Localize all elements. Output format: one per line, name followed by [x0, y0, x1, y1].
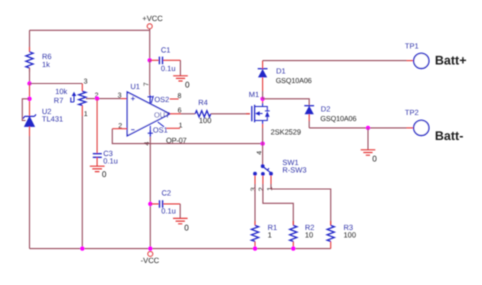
- svg-text:M1: M1: [249, 90, 259, 99]
- resistor R2: [292, 221, 294, 249]
- resistor R4: [181, 113, 195, 115]
- opamp pin4: [149, 131, 151, 137]
- node M1 drain junction: [260, 97, 264, 101]
- svg-text:OUT: OUT: [154, 110, 170, 119]
- wire gnd drop: [367, 128, 369, 150]
- switch SW1 R-SW3: [261, 164, 265, 168]
- svg-text:1k: 1k: [42, 60, 50, 69]
- wire top rail: [30, 29, 150, 31]
- node junction U2 ref: [27, 97, 31, 101]
- svg-text:4: 4: [256, 151, 263, 155]
- potentiometer R7: [81, 84, 83, 117]
- opamp label OS2: [151, 96, 153, 103]
- wire C2 to ground: [179, 204, 181, 218]
- svg-text:0: 0: [372, 155, 377, 164]
- op-amp U1: [127, 92, 170, 136]
- svg-text:8: 8: [178, 93, 182, 100]
- switch contact stubs: [255, 176, 271, 184]
- wire left column junction to U2: [29, 84, 31, 117]
- node R1 rail: [253, 246, 257, 250]
- svg-text:1: 1: [84, 111, 88, 118]
- svg-text:3: 3: [118, 93, 122, 100]
- svg-text:TP2: TP2: [405, 108, 419, 117]
- node gnd tap: [366, 126, 370, 130]
- wire U2 ref bracket: [22, 99, 29, 121]
- svg-text:Batt+: Batt+: [435, 53, 467, 67]
- svg-text:-VCC: -VCC: [141, 256, 160, 265]
- wire contact2 to R2: [263, 184, 293, 225]
- wire R6 node to pot pin3: [30, 83, 83, 85]
- svg-text:0: 0: [102, 170, 107, 179]
- U2 TL431: [23, 114, 36, 118]
- wire bottom rail: [30, 248, 331, 250]
- svg-text:3: 3: [250, 187, 257, 191]
- wire feedback pin2: [112, 128, 127, 130]
- wire left column R6 to junction: [29, 68, 31, 84]
- svg-text:0.1u: 0.1u: [161, 64, 176, 73]
- wire VCC to opamp pin7: [149, 60, 151, 95]
- svg-text:TL431: TL431: [42, 115, 63, 124]
- svg-text:100: 100: [344, 230, 357, 239]
- node junction R6/pot: [27, 81, 31, 85]
- svg-text:+VCC: +VCC: [142, 14, 163, 23]
- svg-text:GSQ10A06: GSQ10A06: [320, 114, 356, 123]
- pin 8 stub: [170, 98, 179, 100]
- wire top rail to TP1: [263, 60, 407, 62]
- svg-text:GSQ10A06: GSQ10A06: [276, 76, 312, 85]
- resistor R6: [29, 47, 31, 72]
- wire source to SW1: [262, 128, 264, 144]
- svg-text:2: 2: [259, 187, 266, 191]
- node R2 rail: [291, 246, 295, 250]
- diode D2: [304, 105, 314, 107]
- ground 0 at C2: [173, 218, 188, 223]
- capacitor C1: [150, 59, 181, 61]
- svg-text:OS2: OS2: [154, 95, 169, 104]
- node junction C1 tap: [148, 58, 152, 62]
- wire C1 to ground: [179, 60, 181, 75]
- node C3 tap: [95, 96, 99, 100]
- svg-text:C1: C1: [161, 45, 171, 54]
- -VCC power symbol: [148, 252, 153, 257]
- svg-text:TP1: TP1: [405, 41, 419, 50]
- transistor M1 2SK2529: [246, 113, 250, 115]
- svg-text:C2: C2: [162, 189, 172, 198]
- svg-text:2SK2529: 2SK2529: [271, 128, 301, 137]
- svg-text:0: 0: [185, 80, 190, 89]
- wire D2 to TP2: [309, 127, 406, 129]
- wire wiper to opamp +in: [86, 98, 121, 100]
- node M1 source junction: [260, 141, 264, 145]
- svg-text:0.1u: 0.1u: [161, 207, 176, 216]
- wire drain to D2: [263, 99, 310, 106]
- svg-text:R4: R4: [198, 98, 208, 107]
- svg-text:2: 2: [118, 123, 122, 130]
- capacitor C3: [93, 154, 102, 158]
- wire VCC column: [149, 29, 151, 61]
- pin 6 out wire: [170, 113, 181, 115]
- svg-text:OS1: OS1: [153, 125, 168, 134]
- svg-text:0.1u: 0.1u: [103, 157, 118, 166]
- wire R4 to gate: [211, 113, 250, 115]
- svg-text:1: 1: [179, 123, 183, 130]
- resistor R3: [330, 221, 332, 249]
- svg-text:0: 0: [184, 223, 189, 232]
- ground 0 at TP2 line: [361, 150, 376, 155]
- svg-text:D1: D1: [276, 66, 286, 75]
- svg-text:1: 1: [268, 230, 272, 239]
- svg-text:U1: U1: [130, 82, 140, 91]
- node C2 tap: [148, 202, 152, 206]
- wire pot pin1 to bottom rail: [81, 116, 83, 249]
- opamp label OS1: [150, 122, 164, 132]
- diode D1: [262, 77, 264, 91]
- ground 0 at C3: [90, 166, 105, 171]
- wire opamp pin4 down: [149, 137, 151, 249]
- svg-text:R7: R7: [54, 96, 64, 105]
- resistor R1: [254, 221, 256, 249]
- svg-text:Batt-: Batt-: [435, 129, 463, 143]
- svg-text:D2: D2: [321, 105, 331, 114]
- ground 0 at C1: [173, 76, 188, 81]
- wire contact1 to R3: [271, 184, 331, 225]
- node pot pin1 / rail: [80, 246, 84, 250]
- +VCC power symbol: [147, 24, 152, 29]
- pin 1 stub: [166, 127, 180, 129]
- wire C3 branch: [96, 99, 98, 154]
- svg-text:3: 3: [84, 78, 88, 85]
- svg-text:10: 10: [305, 230, 313, 239]
- test point TP2: [414, 120, 429, 135]
- svg-text:7: 7: [144, 82, 151, 86]
- capacitor C2: [150, 203, 180, 205]
- wire left column upper: [29, 30, 31, 52]
- svg-text:100: 100: [199, 116, 212, 125]
- svg-text:R-SW3: R-SW3: [282, 166, 306, 175]
- test point TP1: [414, 53, 429, 68]
- wire left column U2 to bottom rail: [29, 126, 31, 136]
- wire contact3 to R1: [254, 184, 256, 225]
